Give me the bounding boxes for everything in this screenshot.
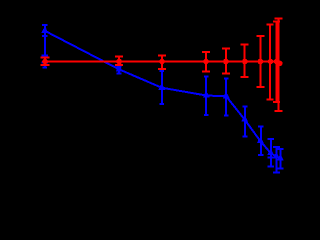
red errorbar R6 <box>241 45 249 77</box>
blue errorbar B2 <box>42 25 48 36</box>
red errorbar R7 <box>256 36 264 87</box>
red marker point 3 (circle) <box>159 59 165 65</box>
blue errorbar B6 <box>224 78 229 115</box>
blue errorbar B3 <box>117 67 122 74</box>
blue marker point 3 (triangle) <box>116 67 123 72</box>
red errorbar R4 <box>202 52 210 72</box>
red marker point 6 (circle) <box>242 59 248 65</box>
red errorbar R10 <box>275 19 283 111</box>
blue marker point 7 (triangle) <box>241 117 248 122</box>
blue marker point 2 (triangle) <box>41 28 48 33</box>
blue errorbar B10 <box>273 147 280 173</box>
red errorbar R3 <box>158 56 166 70</box>
blue marker point 5 (triangle) <box>203 93 210 98</box>
blue series line <box>45 31 280 159</box>
red marker point 1 (circle) <box>42 59 48 65</box>
red marker point 7 (circle) <box>258 59 264 65</box>
red marker point 9 (circle) <box>274 59 280 65</box>
red errorbar R2 <box>115 57 123 66</box>
blue errorbar B5 <box>204 76 209 115</box>
red marker point 10 (circle) <box>277 61 283 67</box>
red errorbar R9 <box>273 21 280 102</box>
blue marker point 9 (triangle) <box>267 151 274 156</box>
blue marker point 1 (triangle) <box>42 59 49 64</box>
red errorbar R1 <box>41 58 50 65</box>
red marker point 4 (circle) <box>203 59 209 65</box>
blue marker point 10 (triangle) <box>273 154 280 159</box>
blue marker point 11 (triangle) <box>277 156 284 161</box>
red series line <box>45 62 280 64</box>
red errorbar R5 <box>222 49 230 74</box>
red errorbar R8 <box>267 25 274 100</box>
blue marker point 4 (triangle) <box>158 85 165 90</box>
blue errorbar B11 <box>277 149 284 168</box>
blue errorbar B9 <box>268 139 275 167</box>
red marker point 5 (circle) <box>223 59 229 65</box>
blue errorbar B4 <box>160 71 165 104</box>
red marker point 8 (circle) <box>268 59 274 65</box>
blue marker point 8 (triangle) <box>257 139 264 144</box>
blue errorbar B8 <box>258 127 264 155</box>
red marker point 2 (circle) <box>116 59 122 65</box>
blue marker point 6 (triangle) <box>223 94 230 99</box>
blue errorbar B7 <box>242 107 247 137</box>
blue errorbar B1 <box>42 56 49 68</box>
